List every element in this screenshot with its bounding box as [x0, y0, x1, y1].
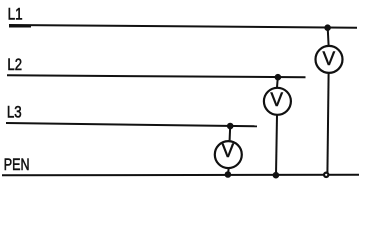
svg-text:PEN: PEN [4, 155, 30, 174]
svg-text:V: V [323, 49, 336, 70]
svg-text:L3: L3 [7, 102, 22, 121]
svg-text:L1: L1 [8, 5, 23, 24]
svg-text:L2: L2 [7, 55, 22, 74]
svg-text:V: V [221, 141, 234, 162]
svg-text:V: V [270, 90, 283, 111]
